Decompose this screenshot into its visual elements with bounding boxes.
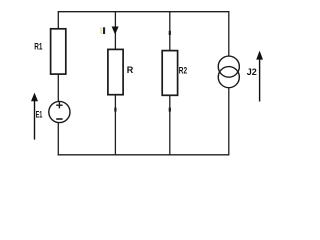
wire branch I upper with current arrow I (112, 11, 119, 49)
current source J2 (218, 56, 239, 88)
svg-text:E1: E1 (36, 109, 43, 119)
resistor R (108, 49, 123, 94)
svg-text:R2: R2 (179, 65, 187, 75)
wire left branch upper (57, 11, 59, 29)
svg-text:J2: J2 (247, 67, 257, 77)
wire J2 to bottom (228, 88, 230, 156)
arrow E1 (31, 93, 38, 140)
wire bottom (58, 154, 230, 156)
resistor R1 (51, 29, 66, 74)
wire right branch upper (228, 11, 230, 56)
wire R2 to bottom (169, 95, 171, 155)
svg-text:R1: R1 (34, 42, 43, 53)
svg-text:R: R (127, 65, 134, 75)
resistor R2 (162, 51, 177, 96)
label I (100, 27, 102, 34)
junction dot on R2 branch upper (169, 31, 171, 35)
wire top (58, 11, 230, 13)
wire R1 to E1 (57, 74, 59, 102)
wire R to bottom (114, 95, 116, 156)
voltage source E1 (49, 101, 70, 122)
wire branch R2 upper (169, 11, 171, 51)
junction dot on R2 branch lower (169, 108, 171, 112)
junction dot on R branch (114, 108, 116, 112)
arrow J2 (256, 51, 263, 102)
wire E1 to bottom (57, 123, 59, 156)
